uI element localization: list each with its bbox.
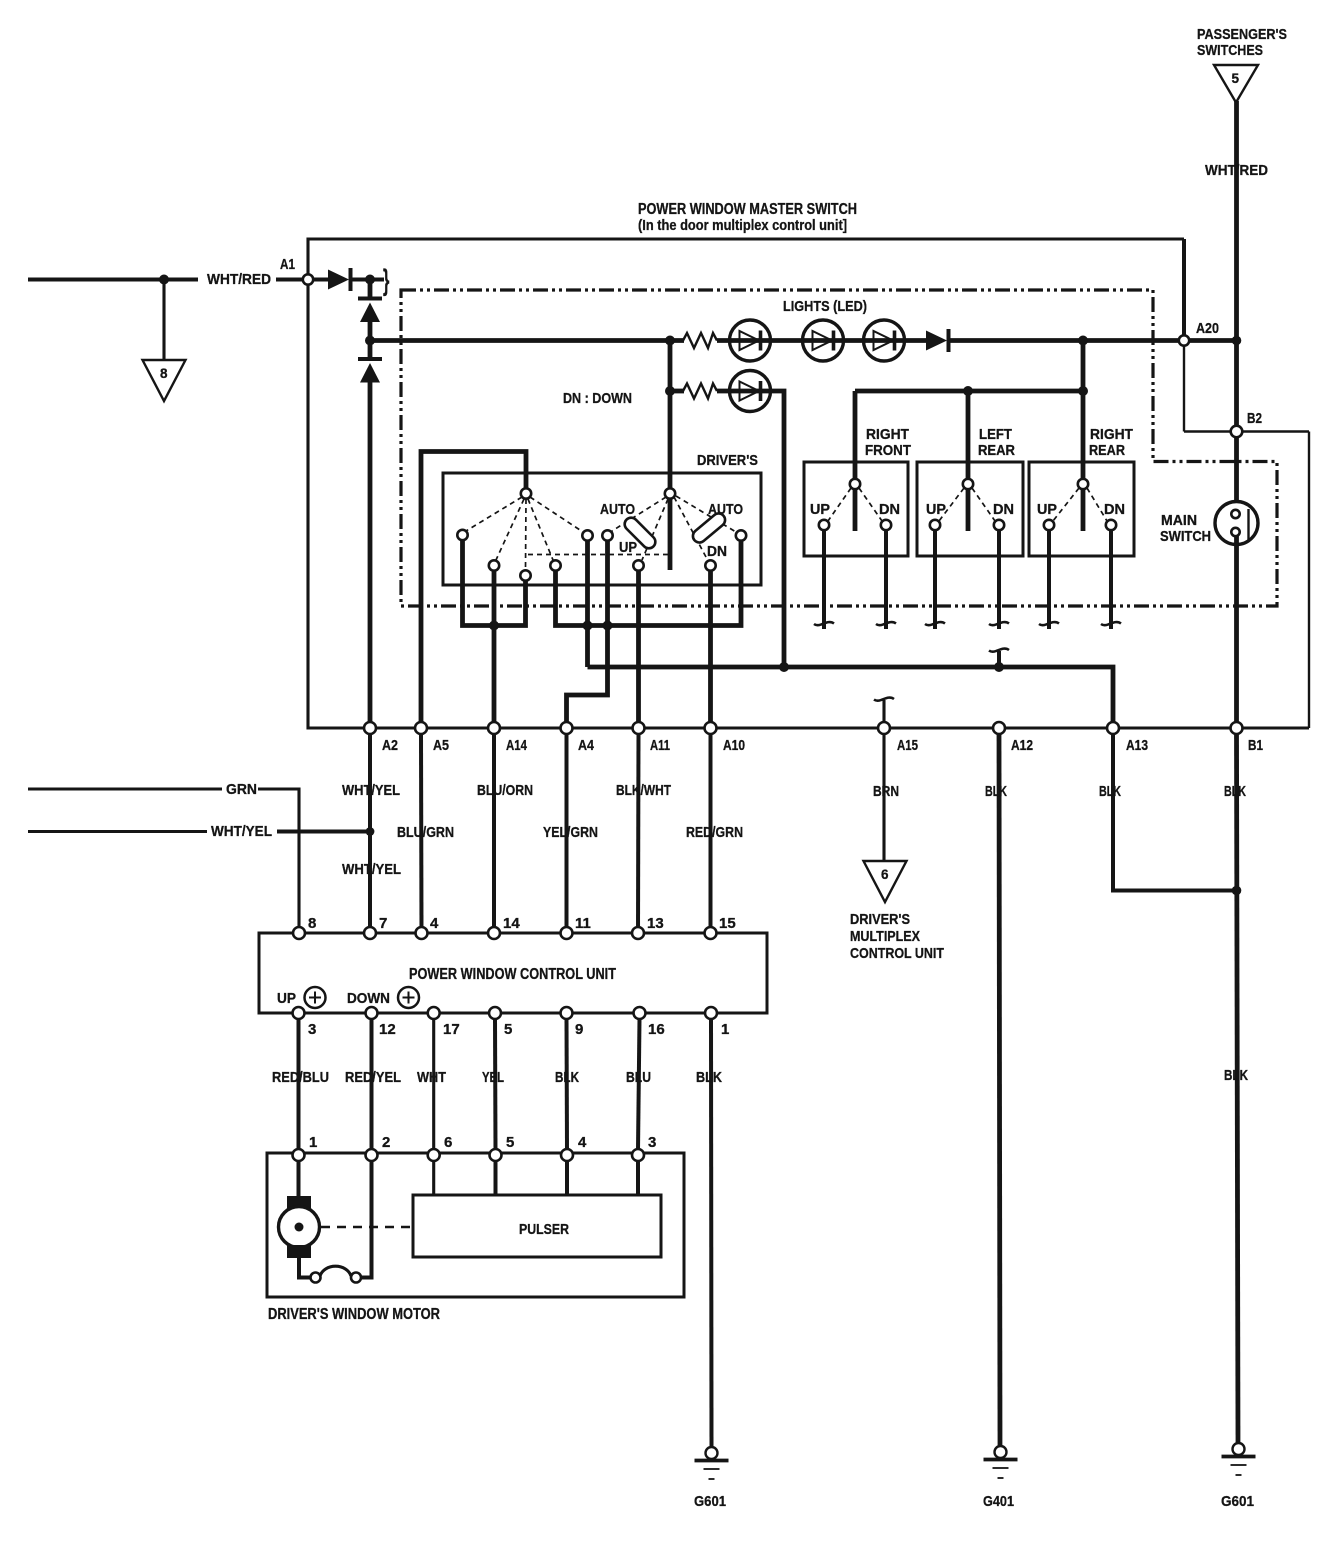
LED1: [730, 320, 771, 361]
resistor R1: [683, 333, 717, 348]
paddle left: [622, 515, 658, 551]
paddle right: [690, 511, 727, 545]
diode D2 (points up): [358, 297, 382, 301]
svg-text:DN: DN: [707, 543, 727, 560]
wire pin12 RED/YEL: [370, 1019, 374, 1150]
svg-text:MAIN: MAIN: [1161, 512, 1197, 529]
wire pin9 BLK: [565, 1019, 570, 1150]
svg-text:1: 1: [309, 1134, 317, 1151]
SECTION: A15 to multiplex unit: [882, 734, 885, 861]
wire: row1 bus: [370, 338, 684, 343]
wire: contact 587 drop to bus 667: [585, 541, 590, 668]
wires pins to pulser: [432, 1161, 435, 1195]
ground G601 right: [1222, 1443, 1256, 1475]
svg-text:A2: A2: [382, 737, 398, 754]
wire: contact drops and merges: [463, 540, 526, 626]
svg-text:}: }: [383, 264, 390, 297]
stub above A12 junction: [997, 651, 1001, 667]
dashed fan right: [612, 497, 666, 531]
terminal A11: [633, 722, 645, 734]
terminal A5: [415, 722, 427, 734]
svg-text:9: 9: [575, 1021, 583, 1038]
wire WHT/YEL input: [28, 830, 207, 833]
svg-text:BLK: BLK: [1224, 783, 1246, 800]
wire: contact 607 to A4: [567, 541, 608, 729]
svg-text:DRIVER'S: DRIVER'S: [697, 452, 758, 469]
wire pin3 RED/BLU: [297, 1019, 301, 1150]
svg-text:REAR: REAR: [978, 442, 1015, 459]
svg-text:5: 5: [504, 1021, 512, 1038]
svg-text:RIGHT: RIGHT: [1090, 426, 1133, 443]
wire pin1 BLK to G601: [709, 1019, 714, 1447]
wire A5 to pin4: [419, 734, 424, 933]
svg-text:WHT/RED: WHT/RED: [207, 271, 271, 288]
svg-text:A11: A11: [650, 737, 670, 754]
pulser box: [413, 1195, 661, 1257]
terminal A14: [488, 722, 500, 734]
wire: drop from row1 to row2 and drivers pivot: [668, 341, 673, 571]
svg-text:A4: A4: [578, 737, 595, 754]
svg-text:DN : DOWN: DN : DOWN: [563, 390, 632, 407]
svg-text:WHT/YEL: WHT/YEL: [342, 782, 400, 799]
SECTION: dash-dot inner box: [401, 290, 1277, 606]
motor bottom loop: [299, 1258, 310, 1278]
svg-text:3: 3: [308, 1021, 316, 1038]
svg-text:4: 4: [430, 915, 439, 932]
svg-text:5: 5: [1232, 71, 1240, 86]
node: junction after D1: [365, 275, 375, 285]
dashed fan left: [466, 497, 522, 531]
box: master switch outline: [308, 237, 1184, 240]
node: junction to LED row: [365, 336, 375, 346]
svg-text:MULTIPLEX: MULTIPLEX: [850, 928, 920, 945]
svg-text:DN: DN: [1104, 501, 1125, 518]
LED2: [803, 320, 844, 361]
SECTION: A12 to G401: [999, 734, 1000, 1446]
terminal B2: [1231, 426, 1243, 438]
svg-text:4: 4: [578, 1134, 587, 1151]
svg-text:BLU/GRN: BLU/GRN: [397, 824, 454, 841]
motor M: [297, 1161, 301, 1196]
svg-text:GRN: GRN: [226, 781, 257, 798]
svg-text:BLK: BLK: [555, 1069, 579, 1086]
svg-text:BRN: BRN: [873, 783, 899, 800]
node: junction on passengers wire: [1232, 336, 1242, 346]
terminal A10: [705, 722, 717, 734]
svg-text:3: 3: [648, 1134, 656, 1151]
wire: passengers vertical: [1234, 101, 1239, 510]
wire: down to terminal A2: [368, 383, 373, 729]
wire: A5 feed to left pivot: [421, 452, 526, 729]
wire: main switch to B1: [1234, 536, 1239, 728]
svg-text:BLK: BLK: [1224, 1067, 1248, 1084]
svg-text:PULSER: PULSER: [519, 1221, 569, 1238]
SECTION: B1 to G601: [1237, 734, 1239, 1443]
wire: stub down to connector 8: [162, 280, 165, 361]
svg-text:G601: G601: [694, 1493, 726, 1510]
svg-text:13: 13: [647, 915, 664, 932]
svg-text:12: 12: [379, 1021, 396, 1038]
diode D4: [926, 331, 947, 351]
LED4: [730, 371, 771, 412]
connector triangle 6: [864, 861, 907, 902]
wire: A10 riser: [708, 571, 713, 729]
wire: RR DN drop: [1109, 530, 1113, 629]
wire: feed bus y391: [855, 389, 1083, 394]
svg-text:5: 5: [506, 1134, 514, 1151]
svg-text:LEFT: LEFT: [979, 426, 1012, 443]
svg-text:DN: DN: [879, 501, 900, 518]
svg-text:15: 15: [719, 915, 736, 932]
svg-text:PASSENGER'S: PASSENGER'S: [1197, 26, 1287, 43]
svg-text:1: 1: [721, 1021, 729, 1038]
node: left pivot: [521, 488, 531, 498]
wire: LR DN drop: [997, 530, 1001, 629]
terminal A20: [1179, 335, 1189, 345]
terminal A13: [1107, 722, 1119, 734]
svg-text:POWER WINDOW MASTER SWITCH: POWER WINDOW MASTER SWITCH: [638, 201, 857, 218]
wire: vertical diode chain: [368, 280, 373, 299]
wire: bus y667 to A13: [588, 667, 1114, 728]
wire A14 to pin14: [492, 734, 496, 933]
wire: RR common drop: [1081, 341, 1086, 532]
wire A4 to pin11: [565, 734, 569, 933]
wire A2 to pin7: [368, 734, 372, 933]
svg-text:6: 6: [444, 1134, 452, 1151]
node: junction row1/row2 drop: [665, 336, 675, 346]
wire GRN: [28, 787, 222, 790]
svg-text:BLK: BLK: [985, 783, 1007, 800]
wire: LR UP drop: [933, 530, 937, 629]
svg-text:A5: A5: [433, 737, 449, 754]
wire: RR UP drop: [1047, 530, 1051, 629]
terminal A4: [561, 722, 573, 734]
ground G601 left: [695, 1447, 729, 1479]
svg-text:RED/BLU: RED/BLU: [272, 1069, 329, 1086]
wire: [670, 389, 684, 394]
svg-text:8: 8: [160, 366, 168, 381]
svg-text:A10: A10: [723, 737, 745, 754]
wire: WHT/RED feed horizontal: [28, 278, 198, 282]
svg-text:UP: UP: [277, 990, 296, 1007]
terminal A12: [993, 722, 1005, 734]
SECTION: A13 to B1 link: [1113, 734, 1237, 891]
svg-text:RED/GRN: RED/GRN: [686, 824, 743, 841]
svg-text:7: 7: [379, 915, 387, 932]
box: driver's switch: [443, 473, 761, 585]
wire A10 to pin15: [709, 734, 713, 933]
wire: A20 to passengers wire: [1190, 338, 1237, 343]
svg-text:DRIVER'S WINDOW MOTOR: DRIVER'S WINDOW MOTOR: [268, 1306, 440, 1323]
svg-text:UP: UP: [926, 501, 946, 518]
bottom pins: [293, 1007, 305, 1019]
svg-text:6: 6: [881, 867, 889, 882]
svg-text:BLU: BLU: [626, 1069, 651, 1086]
resistor R2: [683, 384, 717, 399]
svg-text:11: 11: [575, 915, 591, 932]
wire pin16 BLU: [638, 1019, 640, 1150]
wire: RF UP drop: [822, 530, 826, 629]
svg-text:2: 2: [382, 1134, 390, 1151]
top pins: [293, 927, 305, 939]
diode D1: [313, 278, 329, 282]
wire: RF common drop: [853, 391, 858, 531]
svg-text:WHT/YEL: WHT/YEL: [211, 823, 272, 840]
svg-text:FRONT: FRONT: [865, 442, 911, 459]
wire A11 to pin13: [636, 734, 641, 933]
svg-text:LIGHTS (LED): LIGHTS (LED): [783, 298, 867, 315]
svg-text:B2: B2: [1247, 410, 1262, 427]
node: [665, 386, 675, 396]
wire: A11 riser: [636, 571, 641, 729]
svg-text:A13: A13: [1126, 737, 1148, 754]
svg-text:YEL: YEL: [482, 1069, 504, 1086]
svg-text:CONTROL UNIT: CONTROL UNIT: [850, 945, 944, 962]
svg-text:(In the door multiplex control: (In the door multiplex control unit]: [638, 217, 847, 234]
svg-text:A1: A1: [280, 256, 295, 273]
junction node on feed: [159, 275, 169, 285]
svg-text:BLU/ORN: BLU/ORN: [477, 782, 533, 799]
motor pins: [293, 1149, 305, 1161]
svg-text:DN: DN: [993, 501, 1014, 518]
svg-text:BLK: BLK: [696, 1069, 722, 1086]
node: junction to RR drop: [1078, 336, 1088, 346]
node: right pivot: [665, 488, 675, 498]
svg-text:A12: A12: [1011, 737, 1033, 754]
svg-text:A20: A20: [1196, 320, 1219, 337]
svg-text:A15: A15: [897, 737, 918, 754]
svg-text:G601: G601: [1221, 1493, 1254, 1510]
stub above A15: [882, 700, 885, 728]
dashed link motor to pulser: [321, 1226, 413, 1229]
SECTION: driver's window motor: [267, 1153, 684, 1297]
wire pin5 YEL: [493, 1019, 498, 1150]
svg-text:SWITCHES: SWITCHES: [1197, 42, 1263, 59]
svg-text:17: 17: [443, 1021, 460, 1038]
svg-text:WHT: WHT: [417, 1069, 446, 1086]
svg-text:G401: G401: [983, 1493, 1014, 1510]
wire: RF DN drop: [884, 530, 888, 629]
svg-text:DRIVER'S: DRIVER'S: [850, 911, 910, 928]
svg-text:BLK/WHT: BLK/WHT: [616, 782, 671, 799]
svg-text:B1: B1: [1248, 737, 1263, 754]
contacts right fan: [602, 530, 612, 540]
svg-text:RIGHT: RIGHT: [866, 426, 909, 443]
diode D3 (points up): [368, 341, 373, 360]
svg-text:POWER WINDOW CONTROL UNIT: POWER WINDOW CONTROL UNIT: [409, 966, 616, 983]
svg-text:UP: UP: [810, 501, 830, 518]
svg-text:DOWN: DOWN: [347, 990, 390, 1007]
connector triangle 5: [1214, 65, 1258, 103]
svg-text:14: 14: [503, 915, 520, 932]
terminal A15: [878, 722, 890, 734]
svg-text:RED/YEL: RED/YEL: [345, 1069, 401, 1086]
svg-text:YEL/GRN: YEL/GRN: [543, 824, 598, 841]
ground G401: [984, 1446, 1018, 1478]
svg-text:AUTO: AUTO: [600, 501, 635, 518]
LED3: [864, 320, 905, 361]
dashed linkage: [528, 554, 668, 556]
terminal B1: [1231, 722, 1243, 734]
contacts left fan: [457, 530, 467, 540]
svg-text:8: 8: [308, 915, 316, 932]
svg-text:16: 16: [648, 1021, 665, 1038]
wire: LR common drop: [966, 391, 971, 531]
svg-text:SWITCH: SWITCH: [1160, 528, 1211, 545]
svg-text:UP: UP: [619, 539, 637, 556]
svg-text:REAR: REAR: [1089, 442, 1125, 459]
SECTION: power window control unit: [259, 933, 767, 1013]
wire: right group merge: [556, 540, 742, 626]
svg-text:BLK: BLK: [1099, 783, 1121, 800]
svg-text:A14: A14: [506, 737, 527, 754]
svg-text:WHT/YEL: WHT/YEL: [342, 861, 401, 878]
wire: A14 riser: [492, 571, 497, 729]
svg-text:UP: UP: [1037, 501, 1057, 518]
connector triangle 8: [143, 360, 186, 401]
wire pin17 WHT: [432, 1019, 435, 1150]
terminal A2: [364, 722, 376, 734]
svg-text:AUTO: AUTO: [708, 501, 743, 518]
